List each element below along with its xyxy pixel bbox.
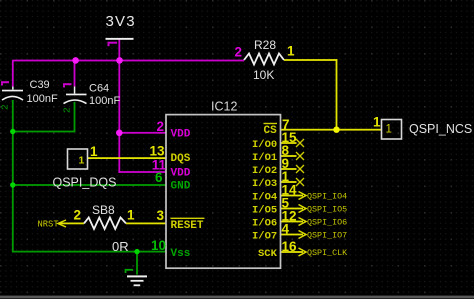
no-connect X on I/O1 [296,152,304,160]
svg-text:I/O4: I/O4 [252,192,277,204]
svg-text:IC12: IC12 [211,100,237,114]
wire C64 top vertical [74,60,76,87]
svg-text:I/O2: I/O2 [252,165,277,177]
svg-text:RESET: RESET [171,220,204,232]
svg-text:100nF: 100nF [89,95,120,107]
svg-text:1: 1 [386,124,392,136]
pin stub I/O4 [281,195,304,197]
C64 pin 1 rotated [63,83,72,87]
wire R28 right horizontal [284,59,337,61]
wire DQS horizontal [88,157,167,159]
window bottom bar [0,296,474,299]
wire NCS vertical [336,59,338,130]
svg-text:4: 4 [282,222,290,237]
wire Vss pin10 horizontal [12,251,166,253]
resistor SB8 [84,218,126,230]
junction at VDD pin2 [116,130,123,137]
svg-text:VDD: VDD [171,168,191,180]
junction ground drop [134,249,139,254]
wire VDD pin11 horizontal [118,171,166,173]
junction cap rail [10,129,15,134]
wire VDD main vertical [118,60,120,173]
IC12 body [166,115,281,269]
pin stub I/O3 [281,181,297,183]
svg-text:DQS: DQS [171,153,191,165]
junction GND wire [10,182,15,187]
svg-text:2: 2 [156,119,164,134]
svg-text:GND: GND [171,181,191,193]
svg-text:3V3: 3V3 [106,13,136,30]
svg-text:1: 1 [287,44,295,59]
wire GND pin6 horizontal [12,184,166,186]
svg-text:SB8: SB8 [92,203,115,217]
svg-text:1: 1 [90,144,98,159]
wire C39 top vertical [12,60,14,87]
svg-text:C64: C64 [89,83,109,95]
wire SB8 to RESET pin [126,223,166,225]
arrow QSPI_IO5 [299,205,307,213]
svg-text:2: 2 [62,107,73,113]
C39 pin 1 rotated [1,81,9,85]
arrow QSPI_IO7 [299,231,307,239]
svg-text:0R: 0R [112,239,129,254]
pin stub I/O5 [281,208,304,210]
svg-text:VDD: VDD [171,128,191,140]
svg-text:R28: R28 [254,38,276,52]
power symbol 3V3 bar [106,38,134,40]
wire GND left vertical [12,100,14,252]
pin stub I/O6 [281,221,304,223]
no-connect X on I/O0 [296,139,304,147]
pin stub I/O7 [281,234,304,236]
arrow QSPI_IO6 [299,218,307,226]
svg-text:NRST: NRST [38,220,59,230]
pin stub SCK [281,251,304,253]
svg-text:6: 6 [155,170,163,185]
resistor R28 [244,54,284,65]
svg-text:1: 1 [127,208,135,223]
junction at CS wire [333,127,339,133]
wire VDD pin2 horizontal [118,132,166,134]
svg-text:2: 2 [0,104,11,110]
wire NRST to SB8 [58,223,84,225]
wire 3V3 symbol vertical [118,40,120,61]
port QSPI_NCS box [382,120,402,140]
svg-text:3: 3 [156,208,164,223]
arrow QSPI_CLK [299,248,307,256]
svg-text:SCK: SCK [258,248,278,260]
svg-text:1: 1 [79,155,85,167]
wire CS horizontal [281,129,382,131]
svg-text:QSPI_IO5: QSPI_IO5 [307,205,347,215]
ground symbol [127,275,147,286]
svg-text:100nF: 100nF [27,93,58,105]
wire 3V3 rail horizontal [13,60,245,62]
arrow QSPI_IO4 [299,192,307,200]
no-connect X on I/O3 [296,178,304,186]
svg-text:2: 2 [235,45,243,60]
svg-text:I/O3: I/O3 [252,178,277,190]
no-connect X on I/O2 [296,165,304,173]
capacitor C64 [64,87,87,104]
svg-text:10K: 10K [253,68,274,82]
svg-text:I/O6: I/O6 [252,218,277,230]
port QSPI_DQS box [68,149,88,169]
svg-text:1: 1 [373,115,381,130]
arrow NRST [58,220,66,227]
svg-text:QSPI_CLK: QSPI_CLK [307,248,348,258]
pin stub I/O0 [281,142,297,144]
svg-text:CS: CS [264,125,278,137]
3V3 pin designator 1 rotated [108,42,118,47]
capacitor C39 [2,87,23,100]
svg-text:2: 2 [74,208,82,223]
svg-text:C39: C39 [30,79,50,91]
junction at 3V3 vertical [116,57,123,64]
svg-text:13: 13 [149,144,165,159]
svg-text:QSPI_IO6: QSPI_IO6 [307,218,347,228]
svg-text:I/O0: I/O0 [252,139,277,151]
svg-text:16: 16 [282,239,298,254]
ground pin designator 1 rotated [125,269,134,273]
wire cap bottom rail [12,131,76,133]
pin stub I/O1 [281,155,297,157]
svg-text:QSPI_IO4: QSPI_IO4 [307,192,347,202]
junction at C64 top [72,57,79,64]
svg-text:Vss: Vss [171,248,191,260]
wire C64 bottom vertical [74,102,76,132]
svg-text:I/O1: I/O1 [252,152,277,164]
svg-text:QSPI_NCS: QSPI_NCS [409,122,472,136]
pin stub I/O2 [281,168,297,170]
svg-text:I/O5: I/O5 [252,205,277,217]
wire ground drop vertical [136,252,138,275]
svg-text:QSPI_DQS: QSPI_DQS [53,176,117,190]
svg-text:10: 10 [151,238,166,253]
svg-text:QSPI_IO7: QSPI_IO7 [307,231,347,241]
svg-text:I/O7: I/O7 [252,231,277,243]
